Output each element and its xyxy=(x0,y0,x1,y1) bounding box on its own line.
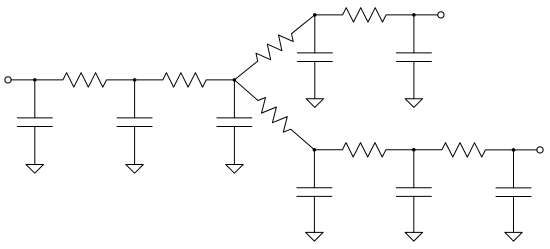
capacitor C5 xyxy=(396,53,431,62)
wire C5 bottom lead xyxy=(413,62,415,99)
terminal output T2 xyxy=(438,12,444,18)
wire C6 top lead xyxy=(313,150,315,188)
wire C4 top lead xyxy=(314,15,316,53)
node N4 xyxy=(313,13,317,17)
resistor R3 (diagonal to upper branch) xyxy=(234,15,314,80)
ground G6 xyxy=(306,232,324,241)
wire C8 bottom lead xyxy=(513,197,515,233)
ground G7 xyxy=(405,232,423,241)
wire C8 top lead xyxy=(513,150,515,188)
resistor R4 (diagonal to lower branch) xyxy=(234,80,314,150)
terminal output T3 xyxy=(537,147,543,153)
capacitor C1 xyxy=(17,118,52,127)
wire C5 top lead xyxy=(413,15,415,53)
node N6 xyxy=(412,13,416,17)
ground G4 xyxy=(306,99,324,108)
ground G8 xyxy=(505,232,522,241)
resistor R5 xyxy=(315,8,414,22)
capacitor C2 xyxy=(117,118,152,127)
ground G3 xyxy=(226,165,244,174)
wire C7 bottom lead xyxy=(413,196,415,232)
node N7 xyxy=(412,148,416,152)
wire C7 top lead xyxy=(413,150,415,188)
node N1 xyxy=(33,78,37,82)
capacitor C6 xyxy=(297,188,332,197)
node N5 xyxy=(313,148,317,152)
wire C3 bottom lead xyxy=(233,127,235,165)
wire C1 top lead xyxy=(34,80,36,118)
ground G1 xyxy=(26,165,44,174)
node N3 xyxy=(233,78,237,82)
ground G5 xyxy=(405,99,423,108)
terminal input T1 xyxy=(5,77,11,83)
node N2 xyxy=(133,78,137,82)
capacitor C4 xyxy=(297,53,332,62)
resistor R2 xyxy=(135,73,235,87)
capacitor C8 xyxy=(496,188,531,197)
node N8 xyxy=(512,148,516,152)
resistor R1 xyxy=(35,73,135,87)
wire C4 bottom lead xyxy=(314,62,316,99)
wire C1 bottom lead xyxy=(34,127,36,165)
wire T1 to node N1 xyxy=(11,79,35,81)
resistor R6 xyxy=(314,143,413,157)
resistor R7 xyxy=(414,143,514,158)
wire C6 bottom lead xyxy=(313,196,315,232)
ground G2 xyxy=(126,165,144,174)
wire N6 to terminal T2 xyxy=(414,14,438,16)
capacitor C7 xyxy=(396,188,431,197)
wire N8 to terminal T3 xyxy=(514,149,537,151)
wire C2 top lead xyxy=(134,80,136,118)
wire C3 top lead xyxy=(233,80,235,118)
capacitor C3 xyxy=(217,118,252,127)
wire C2 bottom lead xyxy=(134,127,136,165)
